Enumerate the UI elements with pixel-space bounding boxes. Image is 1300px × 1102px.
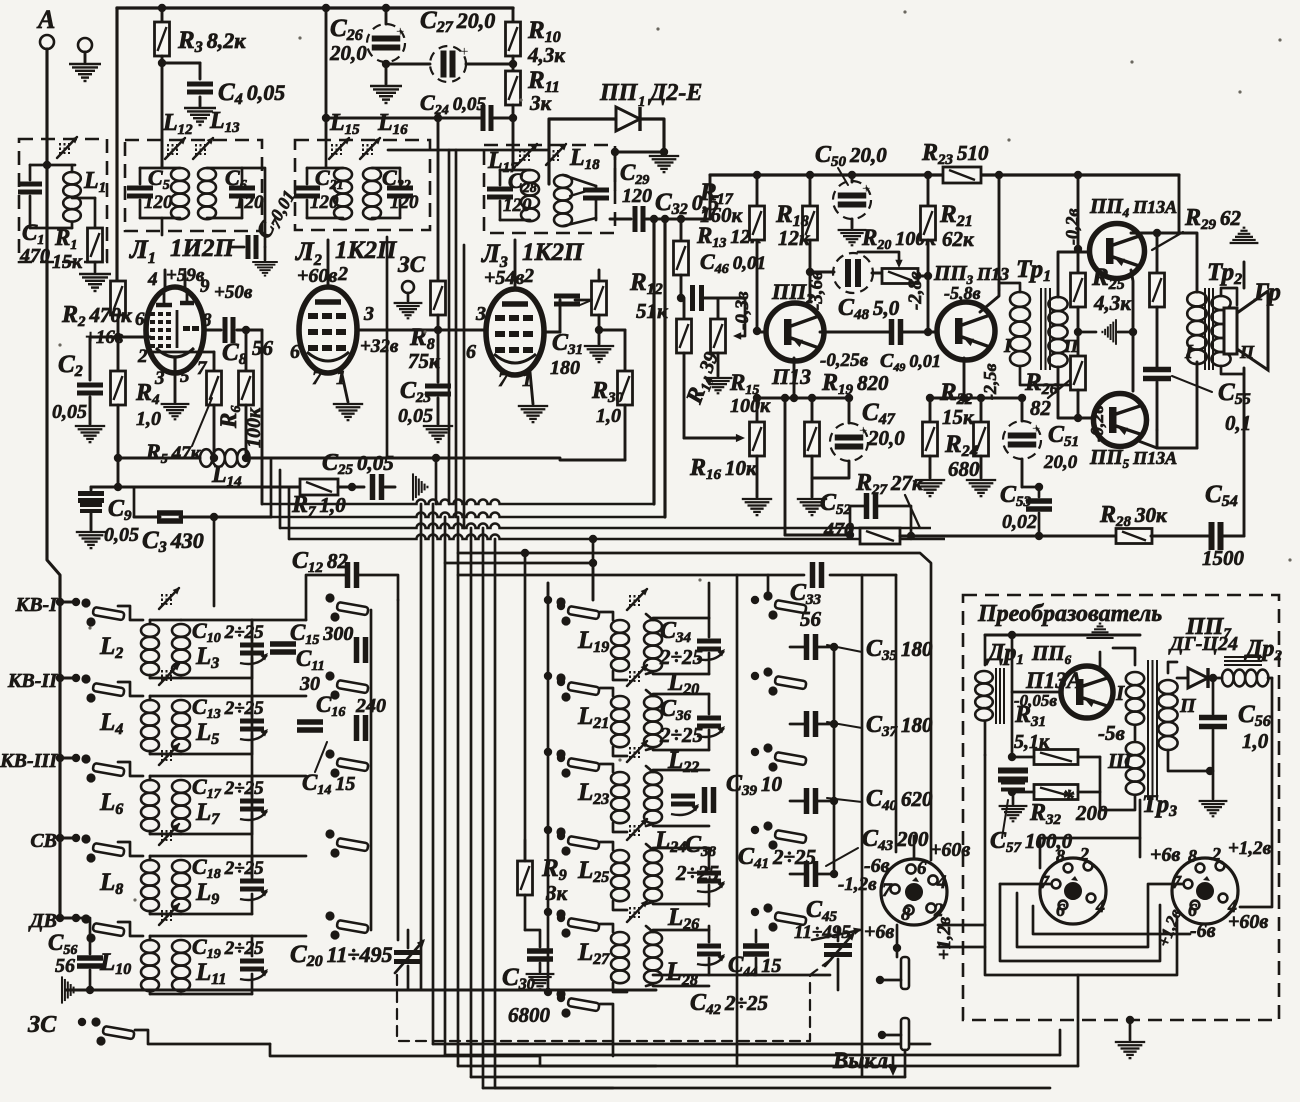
svg-text:1,0: 1,0: [596, 405, 621, 427]
ground converter bottom: [1126, 1016, 1134, 1024]
svg-text:82: 82: [1030, 396, 1052, 420]
capacitor C21: [294, 186, 320, 191]
capacitor C5: [127, 186, 153, 191]
svg-text:Ш: Ш: [1107, 749, 1133, 773]
capacitor C7: [264, 235, 267, 247]
wire screen supply line: [388, 149, 548, 152]
svg-text:*: *: [1062, 786, 1075, 812]
ground: [161, 404, 190, 419]
wire amp top rail: [710, 173, 945, 176]
ground: [526, 974, 555, 989]
inductor L27: [600, 924, 613, 932]
svg-text:Д2-Е: Д2-Е: [648, 80, 702, 106]
inductor L9: [172, 860, 190, 873]
resistor R23: [943, 167, 981, 183]
wire L2 cathode to ground: [341, 370, 348, 402]
wire ZS row: [270, 1044, 656, 1066]
ground: [584, 346, 614, 362]
svg-text:4: 4: [147, 269, 158, 290]
svg-text:+60в: +60в: [930, 839, 970, 861]
capacitor C32: [610, 218, 631, 221]
wire x999 rail to Tr1: [998, 175, 1001, 290]
svg-text:+6в: +6в: [1150, 844, 1180, 866]
wire C46 to R15 wiper: [737, 298, 745, 336]
inductor L3: [172, 624, 190, 637]
inductor L20: [644, 620, 662, 633]
ground side left: [1078, 331, 1096, 334]
resistor R10: [512, 8, 515, 22]
wire emitter node: [757, 397, 849, 400]
resistor R28: [1116, 529, 1152, 544]
wire bus horizontal lines: [262, 500, 654, 505]
svg-text:ДВ: ДВ: [28, 910, 57, 932]
switch off upper: [901, 957, 909, 989]
inductor L15: [334, 168, 352, 181]
svg-text:Выкл.: Выкл.: [832, 1048, 894, 1073]
svg-text:2: 2: [337, 263, 348, 285]
wire L-block row 3: [653, 769, 709, 772]
svg-text:СВ: СВ: [30, 830, 57, 852]
svg-text:200: 200: [1075, 801, 1108, 825]
wire C32 to rail: [647, 175, 710, 219]
capacitor C14 cap: [354, 715, 360, 741]
wire PP4 emitter: [1131, 270, 1133, 391]
wire bundle horizontals: [118, 486, 301, 489]
svg-text:12к: 12к: [778, 226, 811, 250]
capacitor C8: [203, 329, 221, 332]
svg-text:C3430: C3430: [142, 527, 204, 556]
paper specks: [298, 36, 301, 39]
svg-text:C5020,0: C5020,0: [815, 142, 887, 170]
transformer Tr3 winding I: [1126, 672, 1144, 685]
switch L-block left row 3: [544, 748, 552, 756]
ground: [423, 426, 453, 442]
core arrow row КВ-III: [161, 750, 163, 761]
svg-text:2: 2: [523, 265, 534, 287]
inductor L10: [149, 936, 152, 940]
switch КВ-I: [81, 598, 90, 607]
variable caps L-block: [697, 639, 721, 644]
svg-text:ДГ-Ц24: ДГ-Ц24: [1168, 633, 1238, 655]
wire PP3 emitter: [963, 358, 966, 398]
svg-text:20,0: 20,0: [1043, 452, 1078, 473]
wire converter socket harness: [985, 755, 1177, 975]
wire row КВ-I: [118, 606, 143, 620]
svg-text:120: 120: [144, 192, 173, 213]
socket converter left: [1040, 858, 1106, 924]
core arrow L12: [167, 144, 169, 155]
wire +6v arrow: [812, 930, 860, 940]
wire grid left: [118, 336, 150, 339]
svg-text:8: 8: [1056, 846, 1065, 866]
wire L-block row 4: [653, 847, 709, 850]
switch col2 row1: [325, 593, 334, 602]
wire row tank КВ-II: [181, 695, 252, 698]
resistor R17: [756, 175, 759, 206]
capacitor C40: [790, 800, 804, 803]
ground: [84, 52, 87, 62]
switch L-block left row 2: [544, 672, 552, 680]
wire L13 tank to grid: [242, 168, 265, 235]
svg-text:120: 120: [390, 192, 419, 213]
capacitor C28: [487, 187, 513, 192]
core arrow L13: [195, 144, 197, 155]
wire bus bottom runs: [433, 1043, 930, 1046]
wire socket top: [913, 836, 916, 859]
resistor R21: [927, 175, 930, 206]
svg-text:+50в: +50в: [214, 282, 253, 303]
capacitor C57: [998, 768, 1028, 774]
inductor L6: [149, 776, 152, 780]
resistor R18: [809, 175, 812, 206]
svg-text:C422÷25: C422÷25: [690, 990, 768, 1018]
wire top vertical x326: [325, 8, 328, 140]
svg-text:0,05: 0,05: [52, 401, 87, 423]
ground: [252, 262, 278, 276]
resistor R6: [245, 330, 248, 371]
ground: [370, 86, 402, 103]
core arrow L16: [362, 144, 364, 155]
svg-text:0,1: 0,1: [1225, 411, 1251, 435]
switch right col rows: [751, 596, 759, 604]
resistor R27: [860, 528, 900, 544]
svg-text:+: +: [1032, 421, 1040, 437]
wire socket bottom: [893, 944, 901, 952]
capacitor C48: [810, 271, 834, 274]
label switch off: [904, 1050, 907, 1077]
switch КВ-III: [81, 754, 90, 763]
wire row КВ-III: [118, 762, 143, 776]
wire box top: [139, 168, 142, 184]
svg-text:56: 56: [55, 955, 75, 977]
svg-text:КВ-I: КВ-I: [15, 594, 59, 616]
capacitor C25: [370, 474, 376, 500]
svg-text:1К2П: 1К2П: [522, 239, 585, 266]
inductor L23: [600, 764, 613, 772]
wire L-block row 5: [653, 929, 709, 932]
potentiometer R20: [882, 269, 918, 284]
svg-text:9: 9: [200, 276, 210, 297]
wire row СВ: [118, 842, 143, 856]
resistor R5: [213, 352, 216, 371]
wire lower rail y553: [458, 553, 931, 860]
inductor L19: [600, 612, 613, 620]
svg-text:C490,01: C490,01: [880, 350, 941, 374]
core arrow row ДВ: [161, 910, 163, 921]
wire Tr1 secondary top: [1058, 252, 1089, 297]
core arrow row КВ-II: [161, 670, 163, 681]
capacitor C15: [270, 641, 296, 647]
capacitor C54: [1151, 535, 1209, 538]
svg-text:+59в: +59в: [166, 265, 205, 286]
svg-text:4: 4: [936, 872, 947, 893]
capacitor C46: [690, 285, 695, 311]
ground: [518, 406, 548, 422]
resistor R1: [94, 198, 97, 228]
ground: [76, 532, 106, 548]
wire right risers: [1077, 975, 1080, 1066]
svg-text:7: 7: [1040, 872, 1050, 892]
resistor R12: [592, 281, 607, 315]
capacitor C16: [297, 719, 323, 725]
wire converter top: [985, 634, 1140, 637]
electrolytic C26: [382, 4, 390, 12]
wire long vertical x654: [652, 220, 655, 504]
wire long vertical x665: [663, 220, 666, 517]
capacitor C35: [790, 646, 804, 649]
wire row КВ-II: [118, 682, 143, 696]
variable cap row КВ-I: [240, 643, 264, 648]
svg-text:Преобразователь: Преобразователь: [977, 601, 1162, 627]
switch col2 row3: [325, 749, 334, 758]
core arrow L-block row 5: [629, 907, 631, 918]
wire vertical x862: [861, 575, 864, 1076]
ground: [797, 499, 827, 515]
wire L-block feeders: [445, 562, 593, 565]
switch off lower: [901, 1018, 909, 1050]
inductor L5: [172, 700, 190, 713]
svg-text:-0,25в: -0,25в: [820, 350, 869, 371]
wire C1 junction: [43, 161, 51, 169]
tube U1 1I2P: [146, 287, 204, 373]
switch L-block bottom row: [544, 988, 552, 996]
dashed box L12 L13: [125, 140, 262, 231]
ground up: [1243, 262, 1246, 288]
wire antenna coupling vertical: [213, 517, 216, 606]
svg-text:1И2П: 1И2П: [170, 235, 235, 262]
wire socket to converter: [938, 924, 985, 927]
wire row tank ДВ: [181, 935, 252, 938]
wire amp bottom rail: [900, 535, 1117, 538]
core arrow L15: [331, 144, 333, 155]
resistor R15: [717, 298, 720, 320]
capacitor C49: [820, 331, 889, 334]
svg-text:6: 6: [135, 309, 145, 330]
resistor R9: [518, 861, 533, 895]
svg-text:1500: 1500: [1202, 546, 1245, 570]
svg-text:120: 120: [235, 192, 264, 213]
inductor L24: [644, 772, 662, 785]
ground side: [62, 976, 76, 1003]
inductor L10 wire bottom: [66, 989, 656, 992]
svg-text:7: 7: [498, 369, 509, 391]
resistor R2: [111, 281, 126, 315]
resistor R11: [512, 56, 515, 72]
wire top rail: [117, 6, 513, 9]
wire Tr2 primary top: [1179, 233, 1197, 292]
wire vertical x896: [895, 575, 898, 852]
capacitor C11: [354, 637, 360, 663]
wire row tank СВ: [181, 855, 252, 858]
transformer Tr3 winding III: [1126, 742, 1144, 755]
ground: [649, 156, 679, 172]
svg-text:C240,05: C240,05: [420, 90, 486, 118]
wire tube L1 cathode: [174, 373, 177, 402]
wire PP2 collector: [809, 272, 812, 300]
dashed box converter: [963, 595, 1279, 1020]
switch L-block left row 5: [544, 908, 552, 916]
core arrow row СВ: [161, 830, 163, 841]
switch col2 row5: [325, 911, 334, 920]
inductor L8: [149, 856, 152, 860]
svg-text:680: 680: [948, 457, 980, 481]
svg-text:2÷25: 2÷25: [659, 723, 703, 747]
ground: [999, 806, 1028, 821]
variable cap row КВ-II: [240, 719, 264, 724]
switch ДВ: [81, 914, 90, 923]
svg-text:4: 4: [1095, 896, 1105, 916]
wire R12 to ground: [598, 330, 601, 344]
dashed box L15 L16: [295, 140, 430, 230]
wire trimmer bus vertical: [251, 620, 254, 881]
capacitor C1: [46, 165, 49, 180]
svg-text:+6в: +6в: [864, 921, 894, 943]
svg-text:+1,2в: +1,2в: [1228, 838, 1272, 859]
svg-text:-0,2в: -0,2в: [1087, 405, 1107, 442]
ground: [184, 108, 216, 125]
capacitor C12: [306, 575, 345, 620]
svg-text:R2470к: R2470к: [61, 302, 133, 330]
inductor L21: [600, 688, 613, 696]
wire left trunk: [58, 602, 61, 918]
inductor L16: [363, 168, 381, 181]
svg-text:3к: 3к: [545, 881, 569, 905]
inductor L14: [118, 457, 200, 460]
capacitor C53: [1035, 483, 1043, 491]
svg-text:C2011÷495: C2011÷495: [290, 941, 393, 970]
wire PP4 collector: [1131, 232, 1179, 235]
svg-text:470: 470: [823, 519, 854, 541]
capacitor C6: [229, 186, 255, 191]
svg-text:160к: 160к: [700, 203, 744, 227]
wire L-block row 2: [653, 693, 709, 696]
svg-text:C2720,0: C2720,0: [420, 7, 495, 36]
svg-text:ПП: ПП: [599, 80, 639, 106]
svg-text:3к: 3к: [529, 91, 553, 115]
transformer Tr3 winding II: [1158, 680, 1177, 694]
svg-text:-2,8в: -2,8в: [905, 271, 926, 310]
svg-text:+60в: +60в: [297, 265, 337, 287]
dashed box L17 L18: [484, 145, 615, 233]
switch col2 row2: [325, 671, 334, 680]
capacitor C3: [157, 510, 183, 516]
ground: [333, 404, 363, 420]
inductor L12: [171, 168, 189, 181]
wire Dr2 right down: [1240, 678, 1272, 907]
tube L2 leads: [327, 240, 330, 287]
resistor R16: [756, 398, 759, 422]
inductor L2: [149, 620, 152, 624]
core arrow L18: [548, 150, 550, 161]
svg-text:-0,3в: -0,3в: [732, 291, 753, 330]
switch L-block left row 4: [544, 826, 552, 834]
ganging dash line: [397, 958, 833, 1041]
core arrow L1: [59, 143, 61, 154]
svg-text:120: 120: [622, 185, 652, 207]
inductor L18: [554, 175, 572, 188]
svg-text:1,0: 1,0: [136, 408, 161, 430]
variable cap row СВ: [240, 879, 264, 884]
svg-text:8: 8: [1188, 846, 1197, 866]
svg-text:-1,2в: -1,2в: [838, 874, 877, 895]
svg-text:5: 5: [180, 366, 190, 387]
resistor R25: [1077, 175, 1080, 249]
wire emitter node 2: [930, 397, 1022, 400]
svg-text:3: 3: [363, 303, 374, 325]
wire row tank КВ-III: [181, 775, 252, 778]
resistor R26: [1077, 332, 1080, 356]
inductor L17: [521, 170, 539, 183]
wire to ground R1: [94, 262, 97, 272]
wire L2 anode: [356, 329, 487, 332]
inductor L4: [149, 696, 152, 700]
svg-text:+: +: [862, 181, 870, 197]
ground: [394, 303, 423, 318]
svg-text:П: П: [1179, 695, 1197, 717]
wire row tank КВ-I: [181, 619, 252, 622]
electrolytic C50: [851, 175, 854, 182]
svg-text:ПП4П13А: ПП4П13А: [1089, 194, 1177, 220]
switch col2 row4: [325, 829, 334, 838]
svg-text:6: 6: [1188, 900, 1197, 920]
svg-text:I: I: [1003, 335, 1013, 357]
svg-text:ЗС: ЗС: [397, 252, 426, 277]
wire right col links: [767, 575, 770, 596]
svg-text:6800: 6800: [508, 1003, 551, 1027]
svg-text:ЗС: ЗС: [27, 1012, 57, 1038]
socket converter right: [1172, 858, 1238, 924]
resistor R19: [811, 398, 814, 422]
svg-text:-3,6в: -3,6в: [806, 271, 827, 310]
tube L3 leads: [514, 240, 517, 289]
wire Tr1 primary: [999, 283, 1020, 292]
wire PP6 base: [1012, 691, 1060, 694]
svg-text:-6в: -6в: [1190, 920, 1216, 942]
resistor R24: [980, 398, 983, 422]
wire L-block bottom: [653, 974, 830, 977]
capacitor C30: [527, 948, 553, 954]
switch КВ-II: [81, 674, 90, 683]
wire diode to ground: [660, 148, 668, 156]
capacitor C22: [387, 186, 413, 191]
svg-text:+1,2в: +1,2в: [934, 916, 955, 960]
wire col2 vertical: [397, 600, 400, 940]
variable cap row КВ-III: [240, 799, 264, 804]
svg-text:2: 2: [1211, 844, 1221, 864]
capacitor C31: [559, 300, 562, 332]
svg-text:120: 120: [503, 195, 532, 216]
wire row ДВ: [118, 922, 143, 936]
svg-text:+: +: [396, 24, 404, 40]
inductor L22: [644, 696, 662, 709]
core arrow L-block row 4: [629, 825, 631, 836]
svg-text:20,0: 20,0: [329, 41, 367, 65]
transformer Tr3 core: [1147, 660, 1149, 800]
ground: [1212, 771, 1215, 799]
resistor R14: [683, 298, 686, 319]
wire KV rows right link: [252, 619, 306, 622]
wire PP3 collector: [980, 290, 999, 312]
svg-text:2÷25: 2÷25: [659, 645, 703, 669]
svg-text:0,02: 0,02: [1002, 511, 1037, 533]
transistor PP5: [1094, 394, 1147, 447]
wire lower rail y575: [458, 574, 804, 577]
electrolytic C47: [848, 398, 851, 423]
core arrow L-block row 2: [629, 671, 631, 682]
wire C54 up to speaker: [1243, 368, 1246, 536]
dashed box antenna circuit: [19, 139, 107, 262]
capacitor C2: [90, 337, 118, 380]
